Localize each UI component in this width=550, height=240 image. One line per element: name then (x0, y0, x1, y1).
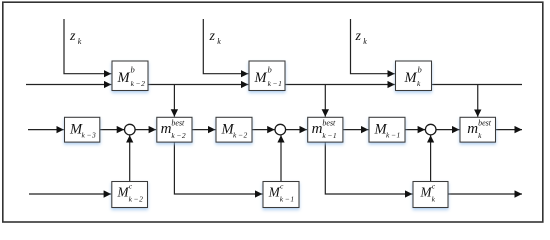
label M^b_k-1 (254, 65, 282, 89)
wire junction drop into m^best_k top (477, 85, 479, 117)
wire summing circle 2 to m^best_k-1 (286, 129, 307, 131)
svg-text:k − 2: k − 2 (233, 130, 248, 139)
wire m^best_k-1 to M_k-1 (343, 129, 369, 131)
svg-text:best: best (322, 119, 336, 128)
summing junction circle 1 (125, 124, 136, 135)
svg-text:M: M (117, 185, 130, 200)
label M_k-2 (221, 122, 248, 140)
wire middle input into M_k-3 (28, 129, 64, 131)
wire M^b_k-1 to M^b_k (285, 84, 395, 86)
wire M^c_k-1 up into summing circle 2 (280, 135, 282, 181)
svg-text:M: M (404, 70, 418, 86)
label M^b_k (404, 65, 422, 89)
label M^b_k-2 (117, 65, 146, 89)
svg-text:M: M (254, 70, 268, 86)
block m^best_k-2 (157, 117, 192, 142)
svg-text:m: m (161, 121, 172, 137)
label m^best_k-1 (312, 119, 337, 140)
block M^c_k (413, 182, 448, 208)
svg-text:m: m (312, 121, 323, 137)
wire m^best_k-2 to M_k-2 (192, 129, 215, 131)
wire summing circle 3 to m^best_k (436, 129, 459, 131)
wire m^best_k-1 drop to M^c_k (325, 142, 412, 194)
svg-text:k − 1: k − 1 (386, 130, 400, 139)
wire z_k input 2 (elbow into M^b_k-1) (203, 19, 248, 74)
wire M^b_k-2 to M^b_k-1 (148, 84, 248, 86)
wire M^b_k output to right (432, 84, 523, 86)
svg-text:b: b (131, 65, 135, 75)
wire bottom input into M^c_k-2 (29, 193, 111, 195)
svg-text:m: m (467, 121, 478, 137)
summing junction circle 3 (425, 124, 436, 135)
wire top main input into M^b_k-2 (26, 84, 111, 86)
wire m^best_k output arrow right (496, 129, 523, 131)
svg-text:best: best (478, 119, 492, 128)
svg-text:best: best (171, 119, 185, 128)
label m^best_k (467, 119, 491, 140)
wire M_k-1 to summing circle 3 (405, 129, 425, 131)
summing junction circle 2 (275, 124, 286, 135)
svg-text:k − 2: k − 2 (171, 131, 186, 140)
wire M^c_k up into summing circle 3 (430, 135, 432, 181)
svg-text:z: z (209, 29, 216, 44)
svg-text:z: z (69, 29, 76, 44)
wire summing circle 1 to m^best_k-2 (135, 129, 156, 131)
label z_k 1 (69, 29, 82, 46)
svg-text:M: M (268, 185, 281, 200)
svg-text:k − 1: k − 1 (280, 195, 294, 204)
block M^c_k-1 (263, 182, 299, 208)
svg-text:k − 2: k − 2 (129, 195, 144, 204)
svg-text:M: M (420, 185, 433, 200)
wire z_k input 3 (elbow into M^b_k) (351, 19, 395, 74)
svg-text:k: k (217, 37, 221, 46)
block m^best_k-1 (308, 117, 343, 142)
wire M_k-3 to summing circle 1 (100, 129, 124, 131)
wire z_k input 1 (elbow into M^b_k-2) (64, 19, 111, 74)
svg-text:k − 3: k − 3 (82, 130, 97, 139)
wire junction drop into m^best_k-2 top (173, 85, 175, 117)
label M^c_k-2 (117, 183, 144, 204)
svg-text:b: b (268, 65, 272, 75)
svg-text:k − 2: k − 2 (131, 79, 146, 88)
block M^b_k-2 (112, 61, 148, 91)
svg-text:b: b (418, 65, 422, 75)
svg-text:k: k (363, 37, 367, 46)
label m^best_k-2 (161, 119, 186, 140)
svg-text:M: M (117, 70, 131, 86)
block m^best_k (460, 117, 496, 142)
wire M^c_k-2 up into summing circle 1 (129, 135, 131, 181)
label z_k 3 (355, 29, 368, 46)
svg-text:z: z (355, 29, 362, 44)
block M_k-3 (65, 117, 100, 142)
svg-text:k: k (78, 37, 82, 46)
block M^b_k-1 (249, 61, 285, 91)
wire M^c_k output arrow right (448, 193, 522, 195)
label M^c_k (420, 183, 436, 204)
label z_k 2 (209, 29, 222, 46)
svg-text:k − 1: k − 1 (322, 131, 336, 140)
label M_k-1 (374, 122, 401, 140)
label M^c_k-1 (268, 183, 294, 204)
block M_k-1 (369, 117, 405, 142)
wire junction drop into m^best_k-1 top (324, 85, 326, 117)
block M^b_k (396, 61, 432, 91)
block M_k-2 (216, 117, 252, 142)
label M_k-3 (69, 122, 96, 140)
block M^c_k-2 (112, 182, 148, 208)
svg-text:k − 1: k − 1 (268, 79, 282, 88)
wire M_k-2 to summing circle 2 (252, 129, 275, 131)
wire m^best_k-2 drop to M^c_k-1 (174, 142, 262, 194)
